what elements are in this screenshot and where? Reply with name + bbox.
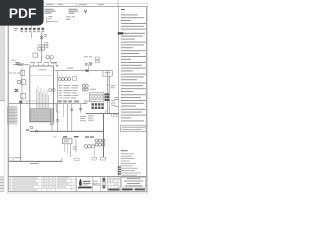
drawing title text: [124, 178, 143, 186]
revision table row text: [12, 178, 69, 191]
bottoms drop line: [20, 104, 22, 162]
U pipe bottom circle: [56, 119, 59, 122]
overhead line from column: [55, 70, 113, 72]
battery limit text: [48, 15, 52, 18]
tag at product line start: [26, 129, 29, 131]
PDF badge: [0, 0, 44, 26]
stray tag above outlet line: [54, 136, 57, 139]
small text right of panel: [111, 85, 116, 105]
boot outlet drop: [51, 125, 53, 132]
stream tag stack left: [8, 107, 17, 124]
stacked tags right of station: [95, 57, 99, 59]
small tags bottom: [74, 158, 79, 160]
U pipe at vessel right: [56, 104, 59, 112]
legend list: [121, 153, 141, 175]
drop to bottom tag: [93, 150, 95, 158]
left edge revision-table bleed stripes: [0, 177, 5, 191]
revision table: [9, 177, 76, 192]
vessel packed bed hatch: [30, 109, 50, 122]
note highlighted dark accent: [118, 32, 124, 34]
pipe drop B: [67, 104, 69, 132]
product dark line: [30, 130, 104, 132]
inlet label text: [66, 16, 75, 19]
feed line left with valve: [12, 59, 16, 62]
valve on vent line: [40, 36, 43, 39]
pump block: [62, 138, 72, 144]
north arrow V mark: [84, 10, 87, 13]
small text right of drops: [73, 146, 78, 149]
NOTES column heading: [121, 9, 125, 10]
pump tags above: [63, 136, 94, 138]
title block cell dividers: [76, 177, 120, 192]
emblem tower: [103, 178, 106, 189]
header strip divider tick: [76, 4, 78, 7]
inner drawing border: [9, 6, 147, 191]
drain circle under vessel: [30, 126, 33, 129]
interlock list text block: [59, 85, 78, 98]
pump drop lines: [64, 144, 66, 152]
instrument bubbles pair lower: [46, 56, 49, 59]
notes column divider: [118, 6, 120, 176]
bubble cluster 2x3 lower right: [95, 139, 98, 142]
outlet text above: [15, 156, 22, 159]
logo text lines: [83, 181, 91, 182]
column vessel T-001 shell: [30, 66, 54, 122]
logo name bar: [78, 187, 91, 189]
junction flag on bottoms line: [19, 101, 22, 104]
vessel boot hatch strip: [51, 109, 54, 125]
valve on product line: [35, 130, 37, 132]
inline valve on overhead line: [86, 69, 89, 72]
top nozzle ticks: [34, 63, 49, 66]
pipe drop A: [57, 71, 59, 132]
pipe drop B2: [71, 104, 73, 132]
header sub text block left: [45, 9, 56, 14]
header strip text marks: [46, 3, 104, 6]
dark tag stack on risers: [105, 93, 110, 101]
legend title: [121, 150, 128, 151]
riser to tag row: [31, 25, 33, 28]
twin vertical pipes: [106, 71, 108, 114]
main vent line drop: [41, 32, 43, 62]
drawing marks left of divider: [114, 97, 118, 107]
boxed note: [121, 125, 146, 131]
short drop with tick: [63, 104, 65, 117]
NGL text: [93, 181, 101, 186]
instrument bubble row below overhead line: [58, 78, 61, 81]
title text inner box: [122, 177, 146, 187]
parallel feed line stub: [23, 100, 36, 102]
tags above bottoms line: [58, 100, 79, 102]
top-left instrument tag row: [14, 28, 44, 32]
company logo flame: [79, 179, 82, 186]
misc small text top mid: [56, 62, 93, 66]
long bottom outlet line: [9, 160, 62, 162]
page background: [0, 0, 149, 198]
drawing number dark row: [108, 189, 119, 191]
instrument panel box with bubbles: [90, 93, 105, 102]
vessel internals comb: [37, 86, 49, 109]
NOTES column text lines: [121, 14, 146, 29]
arrow and tag at end of vertical run: [100, 158, 105, 160]
left page-edge hatched strip: [0, 0, 5, 101]
text cluster mid right: [80, 101, 94, 122]
outlet tag box: [9, 158, 14, 161]
top nozzle tags of column: [30, 62, 57, 63]
tag stack left of legend: [118, 166, 121, 174]
left instrument line cluster: [21, 68, 23, 104]
battery limit tick: [46, 17, 48, 23]
bottoms line across drawing: [9, 103, 86, 105]
vessel tray line: [30, 75, 54, 77]
pipe drop C with valve: [80, 104, 82, 113]
pump suction bubbles: [84, 145, 87, 148]
revision mini grid: [107, 177, 120, 192]
small box on overhead line right: [103, 71, 112, 76]
drop from tag row: [31, 32, 33, 38]
inlet line stub: [47, 20, 58, 22]
title block top line: [9, 176, 147, 178]
header sub text block mid: [69, 9, 79, 14]
dark vertical run: [103, 114, 105, 157]
valve on drop B2: [71, 109, 73, 111]
level gauge bubbles on shell: [49, 89, 52, 92]
header tick above frame: [117, 0, 119, 6]
left edge revision-table bleed backing: [0, 176, 5, 191]
control valve station: [84, 55, 88, 58]
instrument bubbles pair upper: [38, 47, 41, 50]
stacked tag boxes right of vent line: [45, 43, 48, 45]
2x2 bubble cluster: [82, 85, 85, 88]
outlet line end tick: [61, 158, 63, 161]
reflux header dark line: [86, 113, 119, 115]
dark square tags below panel: [92, 103, 104, 109]
small box instrument: [33, 53, 38, 57]
outer trim border: [7, 4, 147, 193]
vessel label: [39, 68, 47, 71]
